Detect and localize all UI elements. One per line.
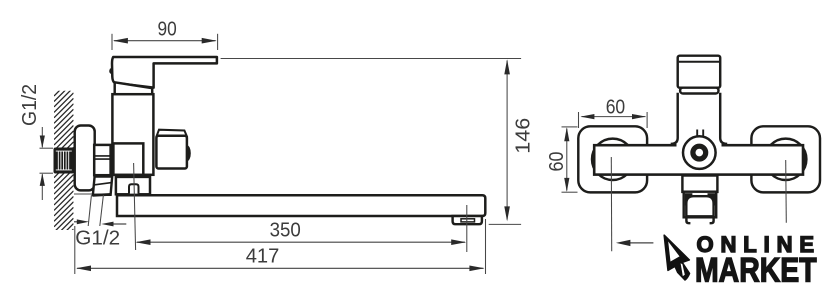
left 60 dimension <box>562 127 578 192</box>
svg-text:60: 60 <box>545 152 568 172</box>
right union leader line <box>785 160 788 223</box>
dimension 90 arrows <box>113 38 128 44</box>
spout lower box (front) <box>684 192 717 218</box>
dimension 350 extension lines <box>134 163 136 250</box>
handle neck (front) <box>680 88 718 94</box>
cartridge cap circle <box>683 136 716 169</box>
dimension 90 extension lines <box>112 34 218 50</box>
handle lever (side view) <box>112 57 217 88</box>
handle block (front) <box>678 56 721 88</box>
dimension 417 extension lines <box>74 226 76 274</box>
spout holder <box>116 177 150 194</box>
svg-text:350: 350 <box>270 219 301 242</box>
body column (front) edges with fillets <box>671 93 678 144</box>
dimension 350 line and arrows <box>137 241 465 243</box>
top 60 dimension <box>579 112 648 128</box>
handle left edge bump <box>109 68 112 75</box>
thin line from outlet to wall <box>74 193 95 195</box>
right wall flange (front) <box>751 126 820 192</box>
svg-text:MARKET: MARKET <box>695 252 817 290</box>
svg-text:417: 417 <box>246 244 280 267</box>
cap screw ticks <box>696 130 698 139</box>
logo cursor <box>664 235 689 280</box>
handle top extension line <box>221 58 521 60</box>
aerator <box>453 216 482 224</box>
spout tube <box>117 195 485 216</box>
left union dark sliver <box>592 150 594 169</box>
spout tip bottom extension line <box>489 223 521 225</box>
mounting hex nut (side view) <box>94 145 110 175</box>
svg-text:146: 146 <box>512 118 535 154</box>
diverter knob side bump <box>183 145 191 161</box>
body tube (front) <box>594 145 803 174</box>
bottom partial dimension arrow <box>628 242 653 244</box>
wall hatching <box>54 77 74 249</box>
aerator ears <box>685 193 693 205</box>
valve body box <box>113 143 143 174</box>
svg-text:90: 90 <box>158 17 177 40</box>
aerator dome <box>686 196 713 216</box>
right union circle <box>765 139 806 180</box>
wall flange escutcheon (side view) <box>75 126 95 191</box>
svg-text:G1/2: G1/2 <box>18 84 41 126</box>
holder notch <box>129 184 139 193</box>
logo cursor white tail slit <box>681 263 685 276</box>
bottom G1/2 dimension extension lines <box>88 195 91 226</box>
svg-text:G1/2: G1/2 <box>75 227 120 250</box>
cartridge column <box>112 94 153 175</box>
logo cursor white head <box>668 242 679 262</box>
left union leader line <box>610 157 612 251</box>
body column junction (erase bar top across column) <box>677 142 722 149</box>
wall nipple with G1/2 thread <box>54 148 75 174</box>
bottom G1/2 arrows <box>74 221 80 223</box>
shower hose outlet nut <box>93 177 112 195</box>
right union dark sliver <box>803 148 806 170</box>
handle neck <box>115 82 153 94</box>
spout collar (front) <box>682 176 717 192</box>
left wall flange (front) <box>578 126 647 192</box>
left union circle <box>592 139 633 180</box>
dimension 417 line and arrows <box>77 267 484 269</box>
svg-text:60: 60 <box>606 95 626 118</box>
spout feet <box>686 217 690 223</box>
diverter knob <box>157 130 187 136</box>
G1/2 wall inlet dimension (left, rotated text) <box>40 127 54 200</box>
dimension 146 <box>506 61 508 220</box>
